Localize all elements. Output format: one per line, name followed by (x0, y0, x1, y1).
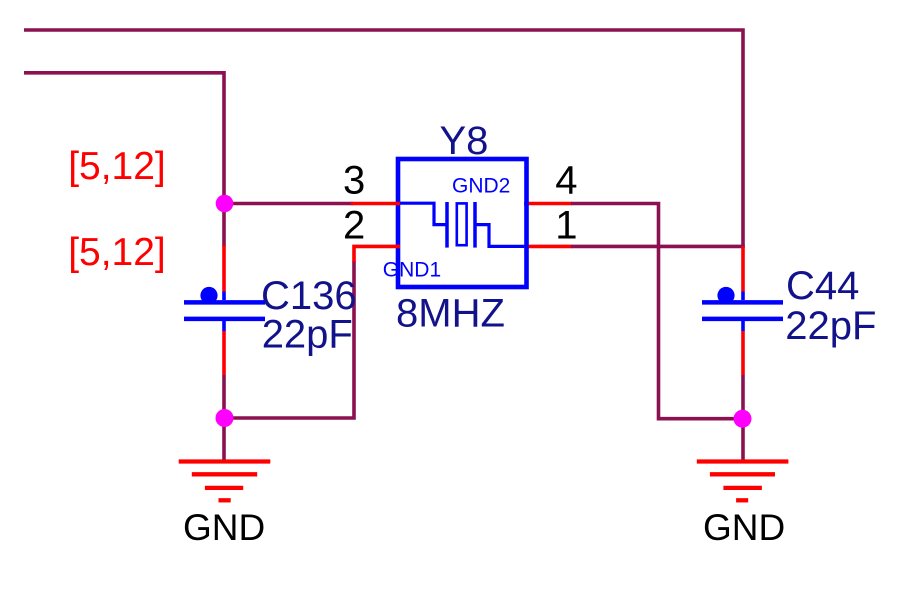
capacitor C136 value 22pF (262, 313, 353, 357)
crystal pin name GND2 (452, 174, 510, 197)
wire pin 4 to C44 lower junction (524, 204, 742, 419)
ground symbol left (179, 462, 271, 501)
capacitor C136 designator (261, 274, 357, 318)
wire C44 bottom chain (741, 319, 745, 461)
wire C136 top red (222, 245, 226, 300)
ground net name GND right (703, 507, 785, 548)
svg-text:GND1: GND1 (383, 258, 441, 281)
junction dot upper left (216, 195, 234, 213)
capacitor C44 value 22pF (785, 304, 876, 348)
pin 2 red stub (354, 246, 400, 262)
pin number 4 (555, 159, 577, 203)
svg-text:4: 4 (555, 159, 577, 203)
crystal Y8 box (398, 159, 527, 287)
svg-text:C44: C44 (786, 264, 859, 308)
pin number 3 (343, 159, 365, 203)
wire junction down to C136 (222, 204, 226, 247)
capacitor C44 designator (786, 264, 859, 308)
pin 3 red stub (351, 202, 400, 206)
wire junction to pin 3 (224, 202, 353, 206)
svg-text:Y8: Y8 (440, 119, 489, 163)
svg-text:22pF: 22pF (262, 313, 353, 357)
svg-text:[5,12]: [5,12] (68, 145, 166, 188)
ground net name GND left (183, 507, 265, 548)
net label [5,12] upper (68, 145, 166, 188)
svg-text:[5,12]: [5,12] (68, 231, 166, 274)
crystal designator Y8 (440, 119, 489, 163)
wire lower junction to pin 2 riser (224, 261, 354, 418)
capacitor C44 (702, 287, 783, 319)
crystal Y8 inner symbol (400, 202, 524, 248)
pin number 1 (555, 203, 577, 247)
svg-text:GND2: GND2 (452, 174, 510, 197)
svg-text:GND: GND (183, 507, 265, 548)
svg-text:8MHZ: 8MHZ (396, 291, 505, 335)
wire lower junction down to ground (222, 418, 226, 461)
svg-text:1: 1 (555, 203, 577, 247)
svg-text:22pF: 22pF (785, 304, 876, 348)
ground symbol right (697, 462, 789, 501)
svg-text:C136: C136 (261, 274, 357, 318)
crystal pin name GND1 (383, 258, 441, 281)
crystal value 8MHZ (396, 291, 505, 335)
wire pin 1 to top rail riser (524, 245, 745, 249)
junction dot lower left (216, 409, 234, 427)
wire C44 top connection red (741, 246, 745, 300)
svg-text:GND: GND (703, 507, 785, 548)
capacitor C136 (184, 287, 265, 375)
svg-text:3: 3 (343, 159, 365, 203)
wire top rail net 1 (24, 30, 743, 246)
wire second rail net 2 (24, 73, 224, 204)
junction dot lower right (734, 410, 752, 428)
net label [5,12] lower (68, 231, 166, 274)
wire C136 bottom to lower junction (222, 375, 226, 418)
svg-text:2: 2 (343, 203, 365, 247)
pin number 2 (343, 203, 365, 247)
